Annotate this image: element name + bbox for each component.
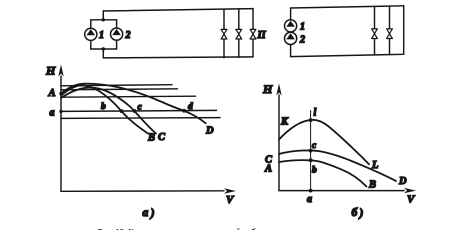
node d on line a-a xyxy=(182,109,186,113)
svg-text:H: H xyxy=(45,64,56,78)
axis V (horizontal, right graph) xyxy=(279,190,404,192)
pump curve C xyxy=(61,88,156,134)
svg-text:а: а xyxy=(143,207,149,219)
head line a-a xyxy=(61,110,217,111)
svg-text:C: C xyxy=(158,132,166,143)
pump 2 circle (series) xyxy=(285,32,297,44)
svg-text:l: l xyxy=(314,108,317,119)
node A on axis xyxy=(59,92,62,95)
wire: left vertical xyxy=(290,8,292,57)
axis H (vertical, right graph) xyxy=(278,95,280,191)
svg-text:A: A xyxy=(48,88,56,99)
curve A-b-B xyxy=(279,160,367,186)
node c (right graph) xyxy=(309,149,313,153)
curve C-c-D xyxy=(279,150,396,181)
svg-text:1: 1 xyxy=(99,30,104,41)
svg-text:d: d xyxy=(188,102,193,112)
svg-text:б: б xyxy=(352,207,359,219)
wire: valve branch 1 (right schematic) xyxy=(374,6,376,55)
head line 3 xyxy=(61,96,196,97)
svg-text:): ) xyxy=(150,208,155,220)
svg-text:V: V xyxy=(226,194,235,206)
svg-text:c: c xyxy=(312,141,317,151)
node: top junction xyxy=(102,18,105,21)
head line 5 xyxy=(61,117,220,120)
svg-text:L: L xyxy=(371,160,378,171)
wire: bottom pipe xyxy=(291,54,404,56)
svg-text:): ) xyxy=(359,208,364,220)
wire: left pump branch xyxy=(90,20,92,49)
wire: right vertical xyxy=(403,6,405,55)
svg-text:K: K xyxy=(280,117,289,128)
pump 2 circle xyxy=(111,28,123,40)
svg-text:b: b xyxy=(101,102,106,112)
node b on line a-a xyxy=(120,109,124,113)
axis V (horizontal) xyxy=(61,190,224,193)
pump 1 circle xyxy=(85,28,97,40)
svg-text:2: 2 xyxy=(299,35,305,46)
wire: valve branch 2 (right schematic) xyxy=(389,6,391,55)
pump 1 circle (series) xyxy=(285,20,297,32)
curve K-l-L xyxy=(279,120,369,165)
node a on axis xyxy=(59,110,62,113)
valve 3 xyxy=(250,29,256,39)
wire: right pump branch xyxy=(116,20,118,49)
wire: valve branch 1 xyxy=(223,9,225,58)
svg-text:a: a xyxy=(50,108,55,119)
wire: loop top bus xyxy=(91,19,117,21)
wire: valve branch 3 xyxy=(252,9,254,57)
head line 1 xyxy=(61,85,172,86)
wire: bottom stub xyxy=(102,49,104,58)
wire: loop bottom bus xyxy=(91,48,117,50)
svg-text:H: H xyxy=(262,82,273,96)
svg-text:B: B xyxy=(147,133,155,144)
valve 2 (right schematic) xyxy=(387,29,393,39)
wire: main bottom pipe xyxy=(103,57,253,58)
node l xyxy=(309,118,313,122)
svg-text:B: B xyxy=(368,180,376,191)
valve 2 xyxy=(236,29,242,39)
wire: top pipe xyxy=(291,6,404,8)
svg-text:V: V xyxy=(407,194,416,206)
pump curve B xyxy=(61,85,148,133)
wire: main top pipe xyxy=(103,9,253,11)
svg-text:a: a xyxy=(307,194,312,205)
wire: valve branch 2 xyxy=(238,9,240,58)
axis H (vertical) xyxy=(60,76,62,191)
node: bottom junction xyxy=(102,47,105,50)
svg-text:Рис. 13. Характеристика совмес: Рис. 13. Характеристика совместной работ… xyxy=(97,227,272,231)
node a (axis) xyxy=(309,189,313,193)
svg-text:П: П xyxy=(257,30,267,41)
node b (right graph) xyxy=(309,158,313,162)
vertical line at a xyxy=(310,111,312,191)
svg-text:A: A xyxy=(264,164,272,175)
svg-text:2: 2 xyxy=(125,30,131,41)
wire: top stub xyxy=(102,11,104,20)
valve 1 xyxy=(221,29,227,39)
svg-text:b: b xyxy=(312,166,317,176)
svg-text:D: D xyxy=(398,176,407,187)
head line 2 xyxy=(61,89,178,90)
pump curve D xyxy=(61,84,206,124)
valve 1 (right schematic) xyxy=(372,29,378,39)
node c on line a-a xyxy=(133,109,137,113)
svg-text:D: D xyxy=(205,126,214,137)
svg-text:1: 1 xyxy=(300,22,305,33)
